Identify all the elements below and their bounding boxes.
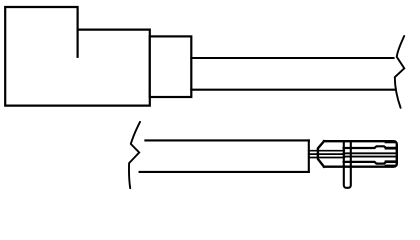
connector latch slot line	[76, 30, 78, 57]
plug end cap stripe top	[386, 140, 394, 143]
sensor plug body P1	[318, 141, 397, 167]
wire lead 1	[309, 150, 345, 152]
break symbol left	[129, 122, 140, 188]
plug end cap stripe upper	[386, 147, 395, 150]
cable ferrule	[150, 36, 192, 97]
plug end cap stripe lower	[386, 160, 395, 163]
wire upper cable bottom line	[191, 89, 395, 91]
break symbol right	[395, 36, 405, 108]
wire lower cable top line	[145, 139, 308, 141]
mounting tab	[344, 141, 351, 188]
wire upper cable top line	[191, 57, 393, 59]
plug internal line upper with notch	[344, 146, 396, 148]
lower cable end cap	[308, 140, 310, 172]
wire lower cable bottom line	[140, 171, 309, 173]
plug internal line mid-lower	[344, 156, 396, 158]
plug internal line lower with notch	[344, 162, 396, 164]
connector housing J1	[5, 7, 150, 106]
plug end cap stripe bottom	[386, 165, 394, 168]
plug internal line mid-upper	[344, 152, 396, 154]
wire lead 2	[309, 153, 345, 155]
wire lead 3	[309, 157, 345, 159]
